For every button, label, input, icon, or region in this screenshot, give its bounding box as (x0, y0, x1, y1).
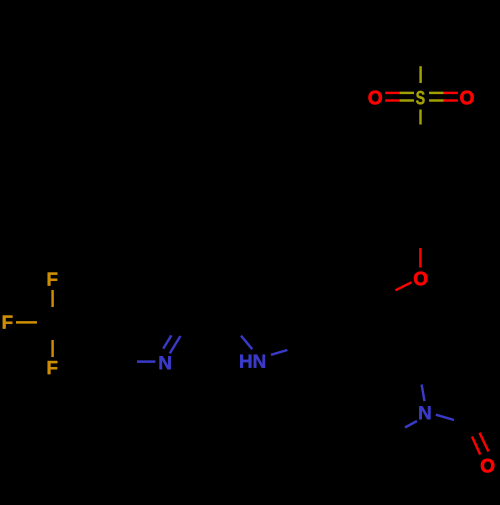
double bond O1=S line 2 (385, 99, 414, 101)
atom F3 (bottom fluorine) (48, 361, 58, 374)
bond N2-C(carbonyl) stub (436, 415, 454, 420)
double bond S=O2 line 2 (429, 99, 458, 101)
bond C-F3 stub (51, 340, 53, 357)
bond NH-C(right) stub (271, 350, 287, 355)
bond CH3-S stub (419, 66, 421, 83)
bond N2-C (down-left) stub (405, 421, 417, 428)
bond S-C(ring) stub (419, 110, 421, 125)
bond C-F1 stub (51, 290, 53, 307)
double bond C=O4 main stub (480, 433, 489, 452)
atom F2 (left fluorine) (3, 316, 13, 329)
atom O1 (left sulfonyl oxygen) (369, 91, 382, 104)
bond C6-N1 stub (137, 360, 155, 362)
bond C-N2 (up) stub (422, 385, 425, 402)
bond C(ring top)-O3 stub (419, 248, 421, 268)
amine nitrogen (of HN) (254, 355, 265, 368)
bond C-F2 stub (16, 321, 37, 323)
ether oxygen O3 (414, 272, 427, 285)
atom F1 (top fluorine) (48, 273, 58, 286)
atom O2 (right sulfonyl oxygen) (460, 91, 473, 104)
double bond S=O2 line 1 (429, 92, 458, 94)
bond O3-C(ring left) stub (395, 282, 411, 290)
atom S (416, 91, 425, 104)
double bond O1=S line 1 (385, 92, 414, 94)
pyridine nitrogen N1 (160, 356, 171, 369)
amide nitrogen N2 (419, 406, 430, 419)
atom O4 (carbonyl oxygen) (481, 459, 494, 472)
amine N-H hydrogen label (240, 355, 251, 368)
double bond N1=C2 inner stub (163, 335, 171, 348)
double bond N1=C2 main stub (170, 336, 181, 353)
double bond C=O4 inner stub (472, 437, 480, 455)
bond NH-C(left) stub (241, 336, 252, 350)
